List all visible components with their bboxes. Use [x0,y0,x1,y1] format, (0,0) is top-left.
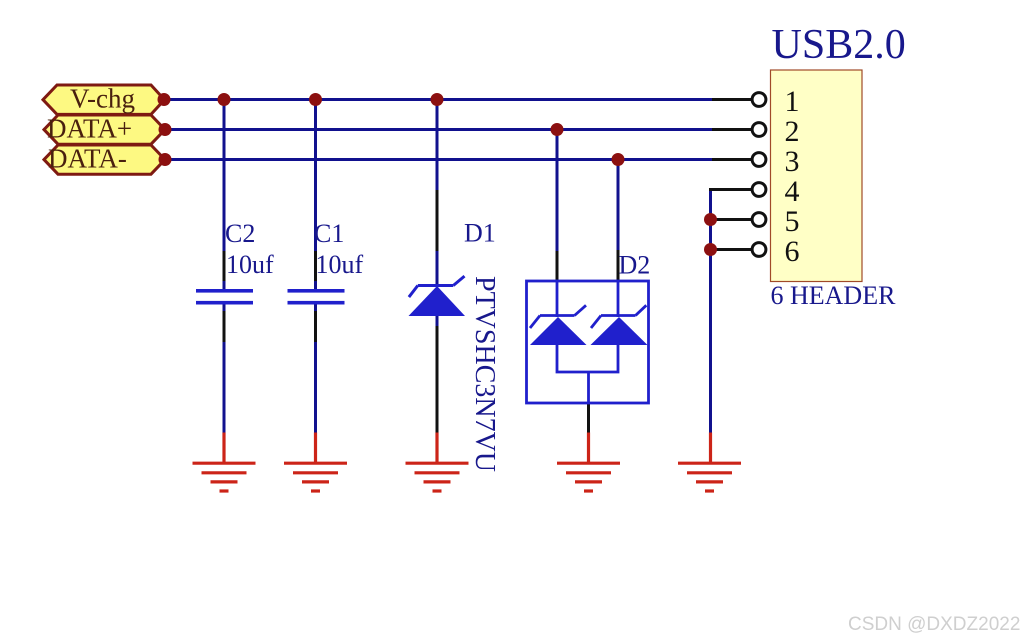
svg-text:2: 2 [785,115,800,148]
svg-text:C1: C1 [314,219,344,248]
svg-text:10uf: 10uf [226,250,274,279]
svg-text:V-chg: V-chg [70,84,135,114]
svg-text:D1: D1 [464,219,496,248]
svg-text:DATA+: DATA+ [47,114,132,144]
svg-text:CSDN @DXDZ2022: CSDN @DXDZ2022 [848,614,1020,635]
svg-text:D2: D2 [619,251,651,280]
svg-text:5: 5 [785,205,800,238]
svg-text:10uf: 10uf [316,250,364,279]
svg-text:1: 1 [785,85,800,118]
svg-text:DATA-: DATA- [48,144,127,174]
svg-text:3: 3 [785,145,800,178]
svg-text:4: 4 [785,175,800,208]
svg-text:C2: C2 [225,219,255,248]
svg-text:USB2.0: USB2.0 [772,22,906,68]
svg-text:PTVSHC3N7VU: PTVSHC3N7VU [469,276,500,472]
svg-text:6: 6 [785,235,800,268]
svg-text:6 HEADER: 6 HEADER [771,281,897,310]
